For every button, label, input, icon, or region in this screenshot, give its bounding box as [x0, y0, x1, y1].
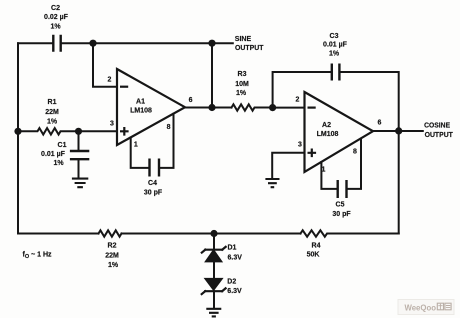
wire zener stem bottom — [213, 291, 215, 307]
svg-text:SINE: SINE — [235, 34, 251, 43]
wire bottom bus left — [18, 233, 99, 235]
svg-text:6.3V: 6.3V — [228, 254, 243, 261]
svg-text:22M: 22M — [105, 252, 119, 259]
svg-text:D2: D2 — [227, 278, 236, 285]
ground A2 pin3 — [265, 179, 279, 187]
svg-text:C5: C5 — [336, 202, 345, 209]
resistor R1 — [18, 128, 116, 134]
svg-text:0.01 µF: 0.01 µF — [323, 41, 348, 48]
svg-text:R1: R1 — [48, 99, 57, 106]
wire A2 pin2 — [273, 107, 304, 109]
resistor R2 — [99, 230, 122, 236]
svg-text:C4: C4 — [148, 180, 157, 187]
zener diode D1 — [202, 247, 226, 261]
resistor R4 — [301, 230, 399, 236]
wire A2 pin3 to ground — [272, 153, 303, 178]
svg-text:2: 2 — [107, 76, 111, 83]
svg-text:R4: R4 — [312, 242, 321, 249]
wire C3 feedback left — [273, 72, 331, 108]
node top feedback junction — [89, 40, 96, 47]
svg-text:1%: 1% — [236, 90, 247, 97]
svg-text:0.01 µF: 0.01 µF — [41, 151, 66, 158]
svg-text:C3: C3 — [330, 33, 339, 40]
svg-text:1%: 1% — [50, 24, 61, 31]
svg-text:fO ~ 1 Hz: fO ~ 1 Hz — [23, 252, 52, 261]
wire A2 pin1 drop — [321, 162, 336, 189]
wire top bus right segment — [62, 42, 233, 44]
wire A1 pin2 drop — [93, 43, 116, 86]
svg-text:1%: 1% — [329, 51, 340, 58]
svg-text:1%: 1% — [53, 160, 64, 167]
wire A1 pin1 drop — [131, 138, 149, 168]
svg-text:3: 3 — [298, 142, 302, 149]
svg-text:6.3V: 6.3V — [227, 288, 242, 295]
wire sine tap vertical — [211, 43, 213, 107]
capacitor C4 — [150, 159, 160, 177]
svg-text:COSINE: COSINE — [424, 121, 450, 130]
svg-text:1: 1 — [134, 142, 138, 149]
wire right rail — [398, 131, 400, 234]
watermark WeeQoo — [398, 300, 454, 315]
wire A2 output — [373, 130, 423, 132]
svg-text:8: 8 — [167, 124, 171, 131]
svg-text:A1: A1 — [136, 98, 145, 105]
wire bottom bus middle — [122, 233, 301, 235]
svg-text:LM108: LM108 — [317, 131, 339, 138]
svg-text:30 pF: 30 pF — [332, 211, 351, 218]
wire A2 pin8 drop — [348, 139, 361, 189]
svg-text:30 pF: 30 pF — [144, 189, 163, 196]
ground C1 — [72, 179, 88, 188]
svg-text:10M: 10M — [235, 81, 249, 88]
wire A1 pin8 drop — [160, 114, 173, 168]
capacitor C5 — [338, 180, 347, 198]
svg-text:22M: 22M — [45, 109, 59, 116]
svg-text:2: 2 — [296, 97, 300, 104]
svg-text:D1: D1 — [228, 245, 237, 252]
wire zener stem top — [213, 234, 215, 249]
wire zener stem middle — [213, 261, 215, 279]
capacitor C1 — [78, 131, 80, 150]
svg-text:LM108: LM108 — [130, 107, 152, 114]
svg-text:WeeQoo: WeeQoo — [405, 302, 437, 312]
svg-text:OUTPUT: OUTPUT — [425, 130, 454, 139]
svg-text:OUTPUT: OUTPUT — [235, 43, 264, 52]
node R3 / C3 / A2 pin2 — [269, 104, 276, 111]
svg-text:6: 6 — [378, 120, 382, 127]
zener diode D2 — [202, 279, 226, 294]
node output / sine tap — [208, 104, 215, 111]
svg-text:8: 8 — [353, 148, 357, 155]
svg-text:1%: 1% — [47, 119, 58, 126]
svg-text:1%: 1% — [108, 262, 119, 269]
svg-text:C1: C1 — [58, 142, 67, 149]
node left rail / R1 — [14, 128, 21, 135]
op-amp A2 — [305, 92, 374, 172]
node zener tap — [210, 230, 217, 237]
svg-text:3: 3 — [110, 120, 114, 127]
svg-text:R3: R3 — [238, 71, 247, 78]
svg-text:6: 6 — [189, 97, 193, 104]
svg-text:C2: C2 — [51, 5, 60, 12]
svg-text:R2: R2 — [108, 242, 117, 249]
svg-text:50K: 50K — [307, 251, 320, 258]
svg-text:A2: A2 — [322, 122, 331, 129]
op-amp A1 — [117, 69, 185, 145]
svg-text:0.02 µF: 0.02 µF — [44, 14, 69, 21]
wire top bus left segment — [18, 42, 52, 44]
node cosine output — [395, 127, 402, 134]
node sine output tap — [208, 40, 215, 47]
wire A1 output row — [185, 107, 232, 109]
capacitor C2 — [53, 35, 60, 52]
node R1 / C1 / pin3 — [75, 128, 82, 135]
ground D2 — [206, 309, 221, 317]
wire left rail — [17, 43, 19, 233]
wire C3 feedback right — [341, 72, 399, 131]
resistor R3 — [232, 104, 273, 110]
capacitor C3 — [332, 64, 340, 81]
